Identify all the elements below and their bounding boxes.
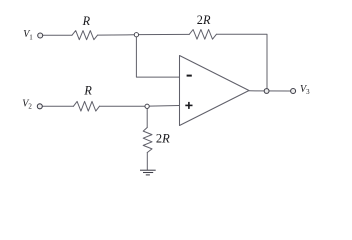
resistor 2R (feedback) <box>189 30 216 40</box>
resistor 2R (to ground) <box>143 128 152 153</box>
svg-text:R: R <box>83 84 92 98</box>
wire 2R to corner down to output node C <box>216 34 267 88</box>
op-amp inverting pin minus sign <box>187 75 192 77</box>
svg-text:R: R <box>82 14 91 28</box>
wire V2 terminal to R <box>43 105 74 107</box>
wire R to node A <box>98 34 134 36</box>
wire V1 terminal to R <box>43 34 72 36</box>
node C output junction circle <box>264 89 269 94</box>
svg-text:V1: V1 <box>23 29 33 41</box>
terminal V2 <box>37 104 42 109</box>
wire node B to noninverting input <box>150 105 180 108</box>
wire R to node B <box>100 105 145 107</box>
svg-text:2R: 2R <box>156 132 170 146</box>
wire 2R to ground <box>146 153 148 170</box>
wire node A down and to inverting input <box>136 37 179 77</box>
op-amp U1 triangle <box>180 56 250 126</box>
wire node B down to vertical 2R <box>146 109 148 128</box>
op-amp noninverting pin plus sign <box>185 102 192 109</box>
svg-text:V3: V3 <box>300 84 310 96</box>
svg-text:2R: 2R <box>197 13 211 27</box>
terminal V3 <box>291 89 296 94</box>
node B junction circle <box>145 104 149 108</box>
resistor R (V2 input) <box>73 101 99 111</box>
resistor R (V1 input) <box>72 31 98 40</box>
ground symbol <box>140 170 156 175</box>
terminal V1 <box>38 33 43 38</box>
svg-text:V2: V2 <box>22 98 32 110</box>
node A junction circle <box>134 33 138 37</box>
wire op-amp output to terminal V3 <box>249 90 291 92</box>
wire node A to feedback resistor 2R <box>139 33 189 35</box>
